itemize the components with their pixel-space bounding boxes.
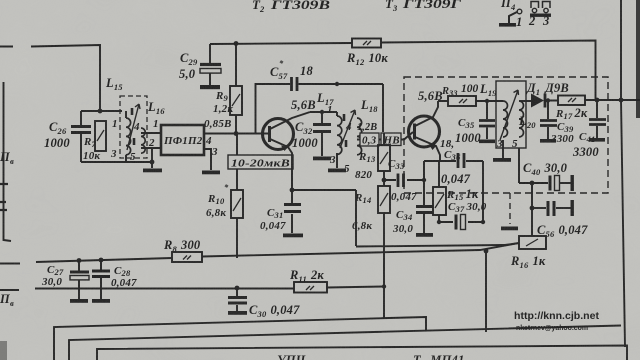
node dot R11 bus join [382, 284, 386, 288]
node dot C34 tap [422, 178, 426, 182]
node dot C27 [77, 258, 82, 263]
emitter chain wire y222 [439, 221, 483, 223]
capacitor C41 plates [589, 120, 606, 125]
capacitor C36 plates [458, 153, 464, 168]
resistor R15 stem top [438, 161, 440, 187]
node dot at R9 tap [234, 41, 239, 46]
ground stem under L17 [336, 153, 338, 168]
resistor R15 body [433, 187, 446, 215]
capacitor C29 stem top [209, 44, 211, 63]
resistor R17 body [558, 96, 585, 106]
AGC wire to C40 [519, 182, 548, 184]
feedback capacitor C57 wire left [256, 84, 291, 134]
resistor R16 left lead [505, 243, 519, 245]
resistor R10 stem upper [236, 134, 238, 156]
capacitor C35 stem [486, 101, 488, 139]
capacitor C34 plates [416, 207, 433, 213]
node dot C36/C37 junction [481, 220, 485, 224]
capacitor C30 plates [228, 298, 247, 304]
node dot C32 tap [320, 110, 324, 114]
bottom bus wire 2 (R11 line, broken at left) [0, 287, 384, 291]
switch P4 moving contact circle [517, 9, 522, 14]
detector output wire [546, 99, 640, 102]
resistor R12 body [352, 39, 381, 48]
node dot C28 [99, 258, 104, 263]
capacitor C29 plate top [200, 63, 221, 66]
node dot input [98, 109, 103, 114]
node dot C35 tap [485, 99, 489, 103]
AGC column wire [531, 183, 533, 236]
transistor T2 emitter arrow head [281, 146, 288, 152]
resistor R8 body [172, 252, 202, 262]
ground bar under C29 [200, 85, 220, 89]
node dot AGC column [530, 181, 535, 186]
node dot right output [619, 98, 624, 103]
right vertical wire from top edge [620, 0, 622, 100]
resistor R12 power marks [363, 41, 371, 45]
capacitor C39 bottom T-bar [540, 139, 556, 143]
core mark top [131, 108, 134, 115]
resistor R17 power marks [568, 98, 576, 102]
capacitor C28 stem [100, 260, 102, 299]
next stage enclosure box [97, 346, 627, 360]
core mark bottom L17 [345, 140, 348, 147]
transistor T2 base bar [268, 126, 271, 142]
resistor R16 slash [526, 239, 538, 246]
capacitor C56 wire right [556, 207, 571, 209]
coil L15 pin leads [125, 111, 127, 162]
filter pin4 wire to T2 base [204, 133, 268, 135]
capacitor C36 wire right [466, 161, 483, 222]
node dot feedback join [484, 249, 489, 254]
detector stage dashed enclosure [404, 77, 608, 193]
node dot C41 [595, 98, 600, 103]
resistor R8 power marks [183, 256, 191, 260]
IF transformer tuning arrow [340, 110, 356, 148]
coil L19 winding [503, 101, 508, 137]
capacitor C30 stem [236, 288, 238, 311]
switch P4 contact 3 circle [544, 8, 548, 12]
resistor R10 slash [233, 198, 241, 211]
resistor R9 stem top [235, 44, 237, 87]
ground bar filter pin3 [202, 171, 220, 175]
filter pin3 wire to ground [204, 149, 211, 170]
transistor T3 emitter arrow head [429, 145, 436, 151]
tuning slug arrow in can [127, 104, 140, 150]
resistor R15 stem bottom [438, 215, 440, 222]
capacitor C32 plates [313, 125, 331, 132]
capacitor C57 wire right [299, 84, 384, 132]
capacitor C29 stem bottom [209, 74, 211, 86]
IF can L15/L16 shield (dashed) [120, 96, 147, 158]
resistor R10 stem mid [236, 169, 238, 190]
dashed enclosure ground tail [509, 193, 511, 224]
transistor T2 body circle [263, 119, 294, 150]
resistor R11 body [294, 282, 327, 293]
coil L15 winding [126, 118, 131, 155]
capacitor C28 bottom T-bar [92, 299, 110, 303]
coil L18 winding [357, 118, 362, 155]
ground bar under L16 [143, 169, 162, 173]
capacitor C27 plate top [70, 271, 89, 274]
capacitor C37 plate left [455, 215, 458, 230]
core mark bottom [133, 138, 136, 145]
resistor R14 slash [380, 193, 388, 206]
filter PF1P2 box [161, 125, 204, 155]
capacitor C40 wire right [560, 182, 571, 184]
callout box NV [381, 133, 401, 146]
node dot C56 tap [530, 206, 535, 211]
switch P4 ground [499, 23, 516, 27]
transistor T2 collector lead [270, 112, 310, 129]
capacitor C32 stem [321, 112, 323, 156]
capacitor C26 plates [71, 127, 91, 133]
sensitivity callout box 10-20mkV [228, 155, 293, 169]
switch P4 contact 3 [543, 2, 551, 9]
resistor R9 slash [232, 94, 240, 106]
capacitor C56 plates [548, 201, 554, 216]
capacitor C31 bottom T-bar [283, 234, 303, 238]
coil L16 winding [141, 128, 145, 153]
ground bar under L19 can [493, 158, 511, 162]
capacitor C27 plate bottom (polarized) [70, 276, 89, 280]
switch P4 common bar [530, 14, 551, 17]
ground stem under L19 [502, 140, 504, 158]
capacitor C40 right T-bar [571, 175, 574, 191]
capacitor C27 stem [78, 261, 80, 300]
bottom long bus wire [69, 326, 621, 360]
resistor R33 body [448, 96, 476, 106]
dark scan edge right [636, 0, 640, 118]
node dot C30 [235, 286, 240, 291]
capacitor C33 plates [398, 174, 404, 188]
resistor R13 stem [383, 133, 385, 145]
coil L20 winding [519, 101, 524, 137]
wire L16 bottom to filter pin2 [141, 147, 161, 149]
capacitor C26 leads [80, 111, 82, 162]
resistor R11 power marks [306, 286, 314, 290]
capacitor C27 bottom T-bar [70, 299, 88, 303]
capacitor C30 bottom T-bar [228, 311, 247, 315]
capacitor C39 stem [547, 101, 549, 140]
emitter junction dot T2 [290, 188, 295, 193]
capacitor C56 wire left [532, 207, 546, 209]
resistor R7 slash [97, 130, 104, 141]
transistor T2 emitter lead with arrow [270, 139, 292, 190]
resistor R10 stem bottom [236, 218, 238, 258]
emitter chain wire y161 [424, 160, 456, 162]
transistor T3 emitter lead [415, 137, 440, 161]
left edge glyph fragments [0, 184, 8, 210]
collector wire to IF can [310, 112, 337, 116]
resistor R7 body [95, 121, 106, 151]
top supply bus wire [210, 41, 596, 100]
capacitor C34 stem [423, 180, 425, 233]
node dot C39 [546, 98, 550, 102]
wire L16 top to filter pin1 [141, 132, 161, 134]
capacitor C41 stem [596, 100, 598, 138]
AGC bus wire A [356, 245, 505, 247]
ground bar under C32 [313, 157, 331, 161]
transistor T3 base bar [413, 124, 416, 140]
capacitor C40 plate left [549, 176, 552, 191]
capacitor C57 plates [292, 77, 298, 91]
switch P4 contact 2 [531, 2, 539, 9]
left block edge vertical wire [4, 82, 12, 241]
core mark top L17 [343, 114, 346, 121]
capacitor C39 plates [540, 121, 557, 126]
resistor R13 body [378, 145, 390, 171]
ground bar of enclosure [501, 227, 518, 231]
tuning arrow in can [500, 90, 519, 140]
AGC return bus P [54, 317, 426, 360]
capacitor C40 plate right (polarized) [555, 176, 560, 191]
callout box 0,3 [360, 133, 379, 146]
capacitor C33 wire [384, 161, 424, 180]
resistor R9 body [230, 86, 242, 115]
capacitor C31 stem [291, 190, 293, 233]
resistor R9 stem bottom [235, 115, 237, 134]
capacitor C29 plate bottom (polarized) [200, 69, 221, 74]
node dot R13/R14/C33 [382, 178, 387, 183]
transistor T3 collector lead [415, 101, 438, 126]
node dot R15 bottom [437, 220, 441, 224]
wire R33 to coil L19 [438, 100, 503, 102]
ground bar under C35 [479, 140, 495, 144]
wire top of input tank [81, 110, 122, 112]
capacitor C37 plate right (polarized) [461, 215, 466, 230]
coil L17 winding [337, 116, 342, 154]
node dot bottom bus [150, 160, 155, 165]
resistor R33 power marks [459, 99, 467, 103]
resistor R10 body [231, 190, 243, 218]
capacitor C41 bottom T-bar [589, 138, 605, 142]
capacitor C56 right T-bar [571, 200, 574, 216]
wire L18 to T3 base [357, 132, 413, 140]
switch P4 contact 2 circle [532, 8, 536, 12]
right output vertical wire [621, 100, 625, 347]
antenna input wire (broken) [0, 45, 100, 111]
bottom bus wire B (R8 line) [0, 243, 519, 264]
resistor R14 body [378, 186, 390, 213]
ground stem under L16 [151, 148, 153, 168]
switch P4 lever arm [509, 12, 517, 23]
IF can L19/L20 shield box [496, 81, 526, 148]
capacitor C31 plates [284, 205, 301, 212]
capacitor C35 plates [479, 121, 495, 127]
resistor R16 body [519, 236, 546, 249]
feedback vertical to bus B [485, 251, 487, 332]
wire L20 top to diode [519, 100, 531, 102]
resistor R15 slash [435, 194, 444, 208]
diode D1 cathode bar [544, 94, 547, 108]
ground bar under C34 [416, 233, 433, 237]
wire bottom of input tank [81, 161, 152, 163]
diode D1 triangle [531, 94, 544, 108]
R14 bottom bus wire [383, 213, 385, 318]
node dot C57 right junction [335, 82, 339, 86]
wire L20 pin5 down to AGC [518, 148, 520, 183]
emitter wire T2 to AGC [292, 190, 356, 246]
resistor R13 slash [380, 152, 388, 164]
transistor T3 body circle [409, 116, 440, 147]
node dot R9 base [234, 131, 239, 136]
wire R13 to R14 [383, 171, 385, 186]
ground bar under L17 [328, 169, 346, 173]
capacitor C28 plates [92, 271, 110, 277]
